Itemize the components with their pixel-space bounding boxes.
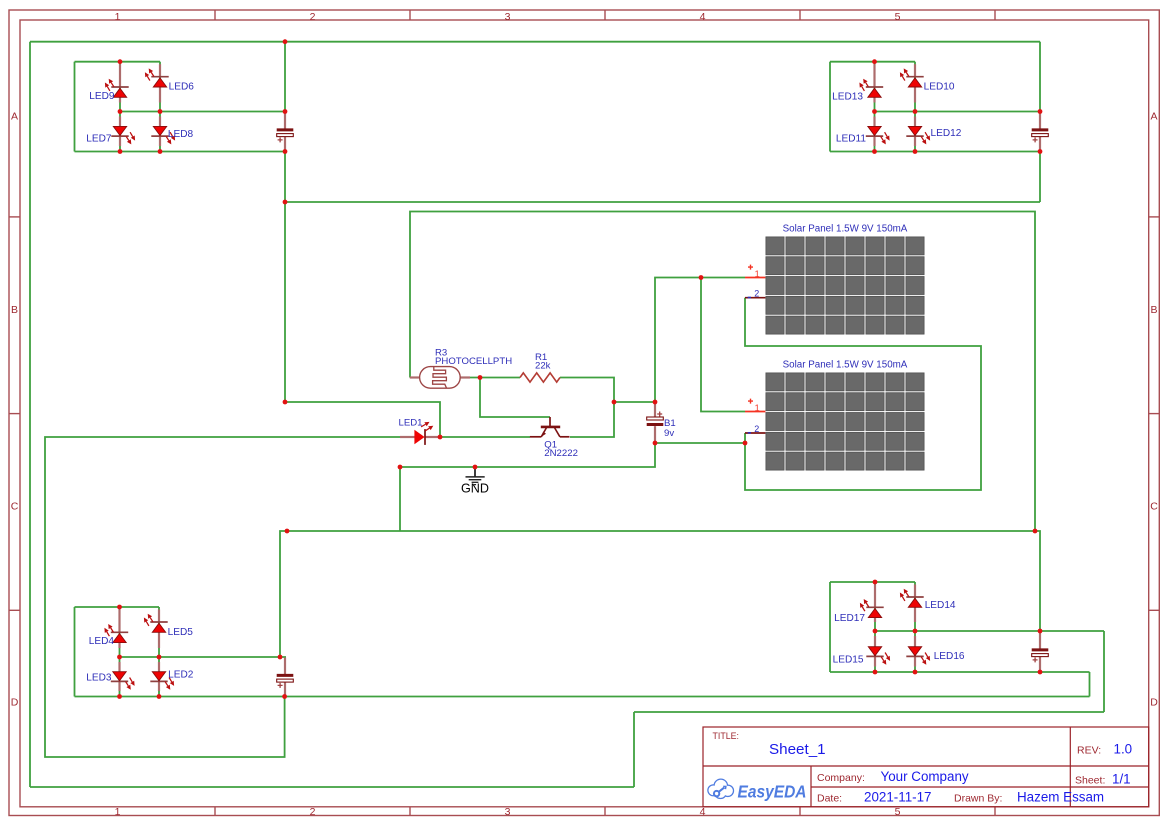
- LED LED1: [400, 422, 440, 445]
- capacitor C4: [1032, 631, 1049, 672]
- LED LED17: [860, 585, 884, 623]
- wire: [875, 111, 1041, 113]
- wire: [45, 437, 400, 757]
- wire: [914, 62, 916, 152]
- svg-text:1: 1: [115, 806, 121, 818]
- svg-text:GND: GND: [461, 482, 489, 496]
- junction: [283, 200, 288, 205]
- svg-text:LED2: LED2: [168, 670, 194, 681]
- junction: [157, 655, 162, 660]
- junction: [158, 109, 163, 114]
- wire: [560, 378, 614, 438]
- junction: [1033, 529, 1038, 534]
- wire: [399, 467, 401, 531]
- junction: [285, 529, 290, 534]
- svg-text:LED12: LED12: [931, 128, 962, 139]
- junction: [278, 655, 283, 660]
- LED LED16: [906, 636, 930, 667]
- svg-text:1/1: 1/1: [1112, 772, 1131, 787]
- svg-text:LED17: LED17: [834, 613, 865, 624]
- wire: [29, 42, 31, 787]
- svg-text:1: 1: [755, 269, 760, 279]
- pin 2 of SP2: [745, 424, 765, 434]
- svg-text:C: C: [1150, 501, 1158, 513]
- wire: [285, 402, 440, 437]
- LED LED9: [105, 64, 129, 102]
- wire: [158, 607, 160, 697]
- svg-text:2N2222: 2N2222: [544, 448, 578, 459]
- svg-text:C: C: [11, 501, 19, 513]
- wire: [284, 152, 286, 403]
- wire: [701, 277, 745, 279]
- svg-text:PHOTOCELLPTH: PHOTOCELLPTH: [435, 356, 512, 367]
- capacitor C3: [277, 658, 294, 697]
- wire: [159, 62, 161, 152]
- svg-text:1.0: 1.0: [1114, 742, 1133, 757]
- wire: [829, 582, 831, 672]
- capacitor C2: [1032, 112, 1049, 152]
- svg-text:B: B: [11, 304, 18, 316]
- svg-text:22k: 22k: [535, 361, 551, 372]
- junction: [118, 109, 123, 114]
- wire: [830, 671, 1090, 673]
- junction: [913, 109, 918, 114]
- wire: [119, 62, 121, 152]
- svg-text:3: 3: [505, 806, 511, 818]
- svg-text:Solar Panel 1.5W 9V 150mA: Solar Panel 1.5W 9V 150mA: [783, 359, 908, 370]
- junction: [1038, 629, 1043, 634]
- wire: [655, 442, 745, 444]
- svg-text:Date:: Date:: [817, 793, 842, 805]
- wire: [119, 607, 121, 697]
- wire: [400, 443, 655, 467]
- transistor Q1: [530, 417, 570, 437]
- svg-text:LED8: LED8: [168, 129, 194, 140]
- wire: [468, 377, 520, 379]
- svg-text:Sheet_1: Sheet_1: [769, 741, 826, 758]
- svg-text:Solar Panel 1.5W 9V 150mA: Solar Panel 1.5W 9V 150mA: [783, 223, 908, 234]
- wire: [634, 711, 1104, 713]
- pin 2 of SP1: [745, 289, 765, 299]
- wire: [1089, 672, 1091, 697]
- svg-text:LED13: LED13: [832, 91, 863, 102]
- wire: [701, 278, 745, 412]
- svg-text:3: 3: [505, 11, 511, 23]
- wire: [280, 531, 1035, 657]
- svg-text:D: D: [11, 697, 19, 709]
- resistor R1: [520, 373, 560, 382]
- junction: [873, 580, 878, 585]
- wire: [614, 401, 655, 403]
- junction: [283, 39, 288, 44]
- wire: [655, 278, 701, 403]
- LED LED14: [900, 585, 924, 623]
- wire: [744, 433, 746, 443]
- wire: [874, 582, 876, 672]
- svg-text:Company:: Company:: [817, 772, 865, 784]
- svg-text:2021-11-17: 2021-11-17: [864, 790, 932, 805]
- capacitor B1: [647, 402, 664, 443]
- LED LED3: [111, 662, 135, 691]
- pin 1 (+) of SP2: [745, 399, 765, 413]
- junction: [438, 435, 443, 440]
- wire: [75, 696, 1090, 698]
- svg-text:REV:: REV:: [1077, 745, 1101, 757]
- junction: [699, 275, 704, 280]
- wire: [829, 62, 831, 152]
- svg-text:9v: 9v: [664, 428, 674, 439]
- wire: [30, 786, 634, 788]
- svg-text:4: 4: [700, 11, 706, 23]
- junction: [873, 629, 878, 634]
- svg-text:EasyEDA: EasyEDA: [738, 781, 807, 801]
- wire: [74, 607, 76, 697]
- junction: [117, 694, 122, 699]
- junction: [478, 375, 483, 380]
- svg-text:LED10: LED10: [924, 82, 955, 93]
- LED LED15: [866, 636, 890, 667]
- svg-text:4: 4: [700, 806, 706, 818]
- wire: [120, 111, 285, 113]
- junction: [473, 465, 478, 470]
- svg-text:LED1: LED1: [399, 417, 423, 428]
- LED LED10: [900, 64, 924, 102]
- svg-text:LED15: LED15: [833, 655, 864, 666]
- svg-text:2: 2: [310, 11, 316, 23]
- junction: [117, 605, 122, 610]
- junction: [743, 441, 748, 446]
- svg-text:1: 1: [115, 11, 121, 23]
- svg-text:LED14: LED14: [925, 600, 956, 611]
- svg-text:LED6: LED6: [169, 82, 195, 93]
- wire: [874, 62, 876, 152]
- svg-text:5: 5: [895, 11, 901, 23]
- svg-text:2: 2: [754, 289, 759, 299]
- wire: [1103, 631, 1105, 712]
- wire: [1039, 152, 1041, 203]
- junction: [873, 670, 878, 675]
- wire: [75, 61, 161, 63]
- wire: [633, 712, 635, 787]
- junction: [283, 109, 288, 114]
- junction: [157, 694, 162, 699]
- wire: [440, 436, 530, 438]
- junction: [1038, 149, 1043, 154]
- LED LED4: [104, 610, 128, 649]
- svg-text:LED3: LED3: [86, 673, 112, 684]
- wire: [120, 656, 287, 658]
- wire: [284, 42, 286, 112]
- wire: [875, 630, 1104, 632]
- svg-text:D: D: [1150, 697, 1158, 709]
- junction: [872, 109, 877, 114]
- junction: [872, 59, 877, 64]
- solar panel SP2: [766, 373, 924, 470]
- svg-text:A: A: [11, 110, 18, 122]
- junction: [653, 441, 658, 446]
- wire: [830, 581, 915, 583]
- svg-text:LED11: LED11: [836, 134, 866, 145]
- svg-text:LED4: LED4: [89, 636, 115, 647]
- svg-text:LED7: LED7: [86, 134, 112, 145]
- wire: [74, 62, 76, 152]
- LED LED6: [145, 64, 169, 102]
- svg-text:2: 2: [754, 424, 759, 434]
- wire: [745, 298, 981, 490]
- LED LED13: [859, 64, 883, 102]
- ground GND: [461, 467, 489, 496]
- wire: [1039, 42, 1041, 112]
- junction: [283, 149, 288, 154]
- svg-text:LED5: LED5: [168, 627, 194, 638]
- wire: [830, 61, 915, 63]
- junction: [398, 465, 403, 470]
- wire: [1035, 531, 1040, 631]
- wire: [285, 201, 1040, 203]
- junction: [1038, 670, 1043, 675]
- wire: [75, 151, 286, 153]
- junction: [913, 149, 918, 154]
- svg-text:1: 1: [755, 403, 760, 413]
- wire: [914, 582, 916, 672]
- svg-text:A: A: [1150, 110, 1157, 122]
- svg-text:2: 2: [310, 806, 316, 818]
- svg-text:Hazem Essam: Hazem Essam: [1017, 790, 1104, 805]
- junction: [118, 149, 123, 154]
- LED LED7: [111, 117, 135, 147]
- LED LED11: [866, 117, 890, 147]
- svg-text:B: B: [1150, 304, 1157, 316]
- LED LED2: [150, 662, 174, 691]
- pin 1 (+) of SP1: [745, 265, 765, 279]
- solar panel SP1: [766, 237, 924, 334]
- wire: [480, 378, 550, 418]
- svg-text:LED16: LED16: [934, 651, 965, 662]
- junction: [653, 400, 658, 405]
- junction: [283, 400, 288, 405]
- junction: [118, 59, 123, 64]
- svg-text:Drawn By:: Drawn By:: [954, 793, 1002, 805]
- svg-text:5: 5: [895, 806, 901, 818]
- LED LED5: [144, 610, 168, 649]
- junction: [158, 149, 163, 154]
- wire: [30, 41, 1040, 43]
- LED LED12: [906, 117, 930, 147]
- junction: [872, 149, 877, 154]
- junction: [117, 655, 122, 660]
- svg-text:TITLE:: TITLE:: [713, 731, 739, 741]
- wire: [830, 151, 1040, 153]
- junction: [1038, 109, 1043, 114]
- junction: [913, 629, 918, 634]
- svg-text:Your Company: Your Company: [881, 769, 969, 784]
- junction: [612, 400, 617, 405]
- svg-text:Sheet:: Sheet:: [1075, 775, 1105, 787]
- junction: [282, 694, 287, 699]
- wire: [75, 606, 160, 608]
- LED LED8: [151, 117, 175, 147]
- junction: [913, 670, 918, 675]
- capacitor C1: [277, 112, 294, 152]
- wire: [410, 212, 1035, 532]
- svg-text:LED9: LED9: [89, 91, 115, 102]
- photocell R3: [410, 367, 470, 389]
